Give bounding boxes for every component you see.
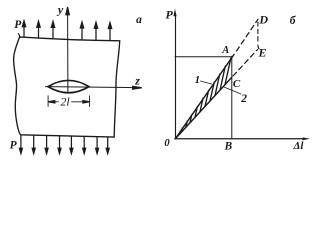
P axis arrowhead xyxy=(173,9,176,16)
P axis xyxy=(175,14,177,139)
svg-text:Δl: Δl xyxy=(293,140,305,152)
svg-text:0: 0 xyxy=(164,138,170,149)
svg-text:C: C xyxy=(233,78,241,90)
svg-text:D: D xyxy=(258,13,268,27)
line 2 dashed C-E xyxy=(233,50,257,76)
svg-text:B: B xyxy=(223,141,232,153)
plate outline xyxy=(19,34,21,38)
line 1 dashed A-D xyxy=(237,19,259,51)
delta-l axis xyxy=(175,138,303,140)
delta-l axis arrowhead xyxy=(303,137,310,140)
z axis arrowhead xyxy=(133,86,142,89)
y axis xyxy=(67,14,69,93)
dashed D-E xyxy=(258,22,260,50)
svg-text:P: P xyxy=(10,140,18,152)
svg-text:2: 2 xyxy=(240,93,247,105)
svg-text:P: P xyxy=(14,19,22,31)
svg-text:a: a xyxy=(136,14,142,26)
down load arrows xyxy=(19,135,109,154)
line 2 solid O-C xyxy=(175,78,231,139)
svg-text:A: A xyxy=(221,45,229,56)
pointer for 2 xyxy=(224,87,241,94)
z axis xyxy=(46,87,134,88)
svg-text:E: E xyxy=(257,45,266,59)
svg-text:y: y xyxy=(56,3,64,17)
dimension arrowheads xyxy=(48,101,54,103)
y axis arrowhead xyxy=(66,7,69,15)
hatching O-A-C xyxy=(182,58,231,132)
svg-text:z: z xyxy=(134,74,140,88)
svg-text:2l: 2l xyxy=(60,95,70,109)
crack lens 2l xyxy=(48,80,89,92)
svg-text:P: P xyxy=(166,8,174,22)
P level line to A xyxy=(175,56,232,58)
svg-text:1: 1 xyxy=(195,74,201,86)
vertical A-C-B xyxy=(231,56,233,138)
dimension line xyxy=(49,101,59,103)
up load arrows xyxy=(19,7,141,154)
pointer for 1 xyxy=(201,81,212,84)
dimension ticks xyxy=(47,96,49,107)
svg-text:б: б xyxy=(290,15,297,27)
line 1 solid O-A xyxy=(175,55,234,139)
